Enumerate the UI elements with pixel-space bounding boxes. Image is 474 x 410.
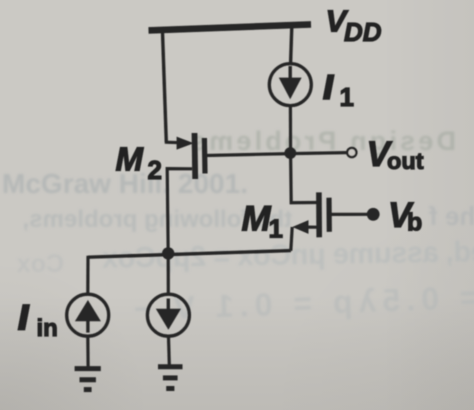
wire: Iin to ground — [86, 337, 89, 367]
svg-text:1: 1 — [340, 82, 354, 112]
wire: M2 gate to Vout node — [205, 154, 290, 156]
wire: junction to middle current source — [167, 253, 170, 293]
current source Iin circle — [67, 294, 109, 336]
svg-text:2: 2 — [148, 155, 162, 185]
svg-text:I: I — [19, 299, 30, 337]
wire: bottom rail — [88, 251, 291, 258]
ground (right) — [158, 364, 183, 369]
svg-text:M: M — [116, 141, 145, 178]
current source Iin arrow (up) — [75, 300, 101, 321]
transistor M1 source arrow — [306, 226, 317, 229]
transistor M1 channel bar — [316, 192, 322, 237]
VDD rail — [149, 24, 312, 30]
wire: bottom rail to Iin source — [86, 256, 89, 294]
wire: M1 gate to Vb — [329, 213, 369, 216]
wire: M1 source down to bottom rail — [291, 227, 292, 251]
wire: VDD rail to I1 — [291, 27, 292, 63]
wire: M2 drain lead — [167, 169, 192, 254]
current source I2 circle — [147, 294, 189, 336]
node Vout junction dot — [284, 147, 296, 159]
svg-text:1: 1 — [269, 214, 283, 244]
transistor M2 source arrow — [177, 137, 194, 150]
current source I2 arrow (down) — [167, 299, 170, 311]
svg-text:I: I — [324, 69, 334, 106]
terminal Vout open circle — [347, 148, 356, 157]
svg-text:in: in — [37, 315, 58, 342]
svg-text:Cox: Cox — [17, 250, 64, 278]
svg-text:DD: DD — [344, 17, 382, 47]
faint show-through text from reverse page — [2, 126, 474, 327]
current source I1 arrow (down) — [289, 66, 292, 79]
svg-text:the f: the f — [429, 201, 474, 231]
wire: M2 source lead — [165, 141, 186, 145]
wire: Vout node to terminal — [291, 153, 347, 154]
svg-text:b: b — [407, 209, 422, 237]
transistor M1 gate bar — [326, 198, 331, 232]
transistor M2 channel bar — [192, 133, 198, 179]
node bottom junction dot — [162, 247, 174, 259]
circuit ink — [67, 24, 380, 389]
wire: Vout node down to M1 drain — [291, 154, 317, 203]
terminal Vb dot — [367, 208, 380, 221]
wire: I1 to Vout node — [289, 106, 292, 153]
transistor M2 gate bar — [202, 138, 208, 174]
svg-text:out: out — [387, 148, 424, 174]
wire: I2 to ground — [167, 337, 171, 365]
ground (left) — [75, 366, 101, 371]
wire: VDD rail to M2 source — [162, 29, 166, 142]
svg-text:M: M — [242, 200, 272, 239]
current source I1 circle — [269, 64, 311, 106]
